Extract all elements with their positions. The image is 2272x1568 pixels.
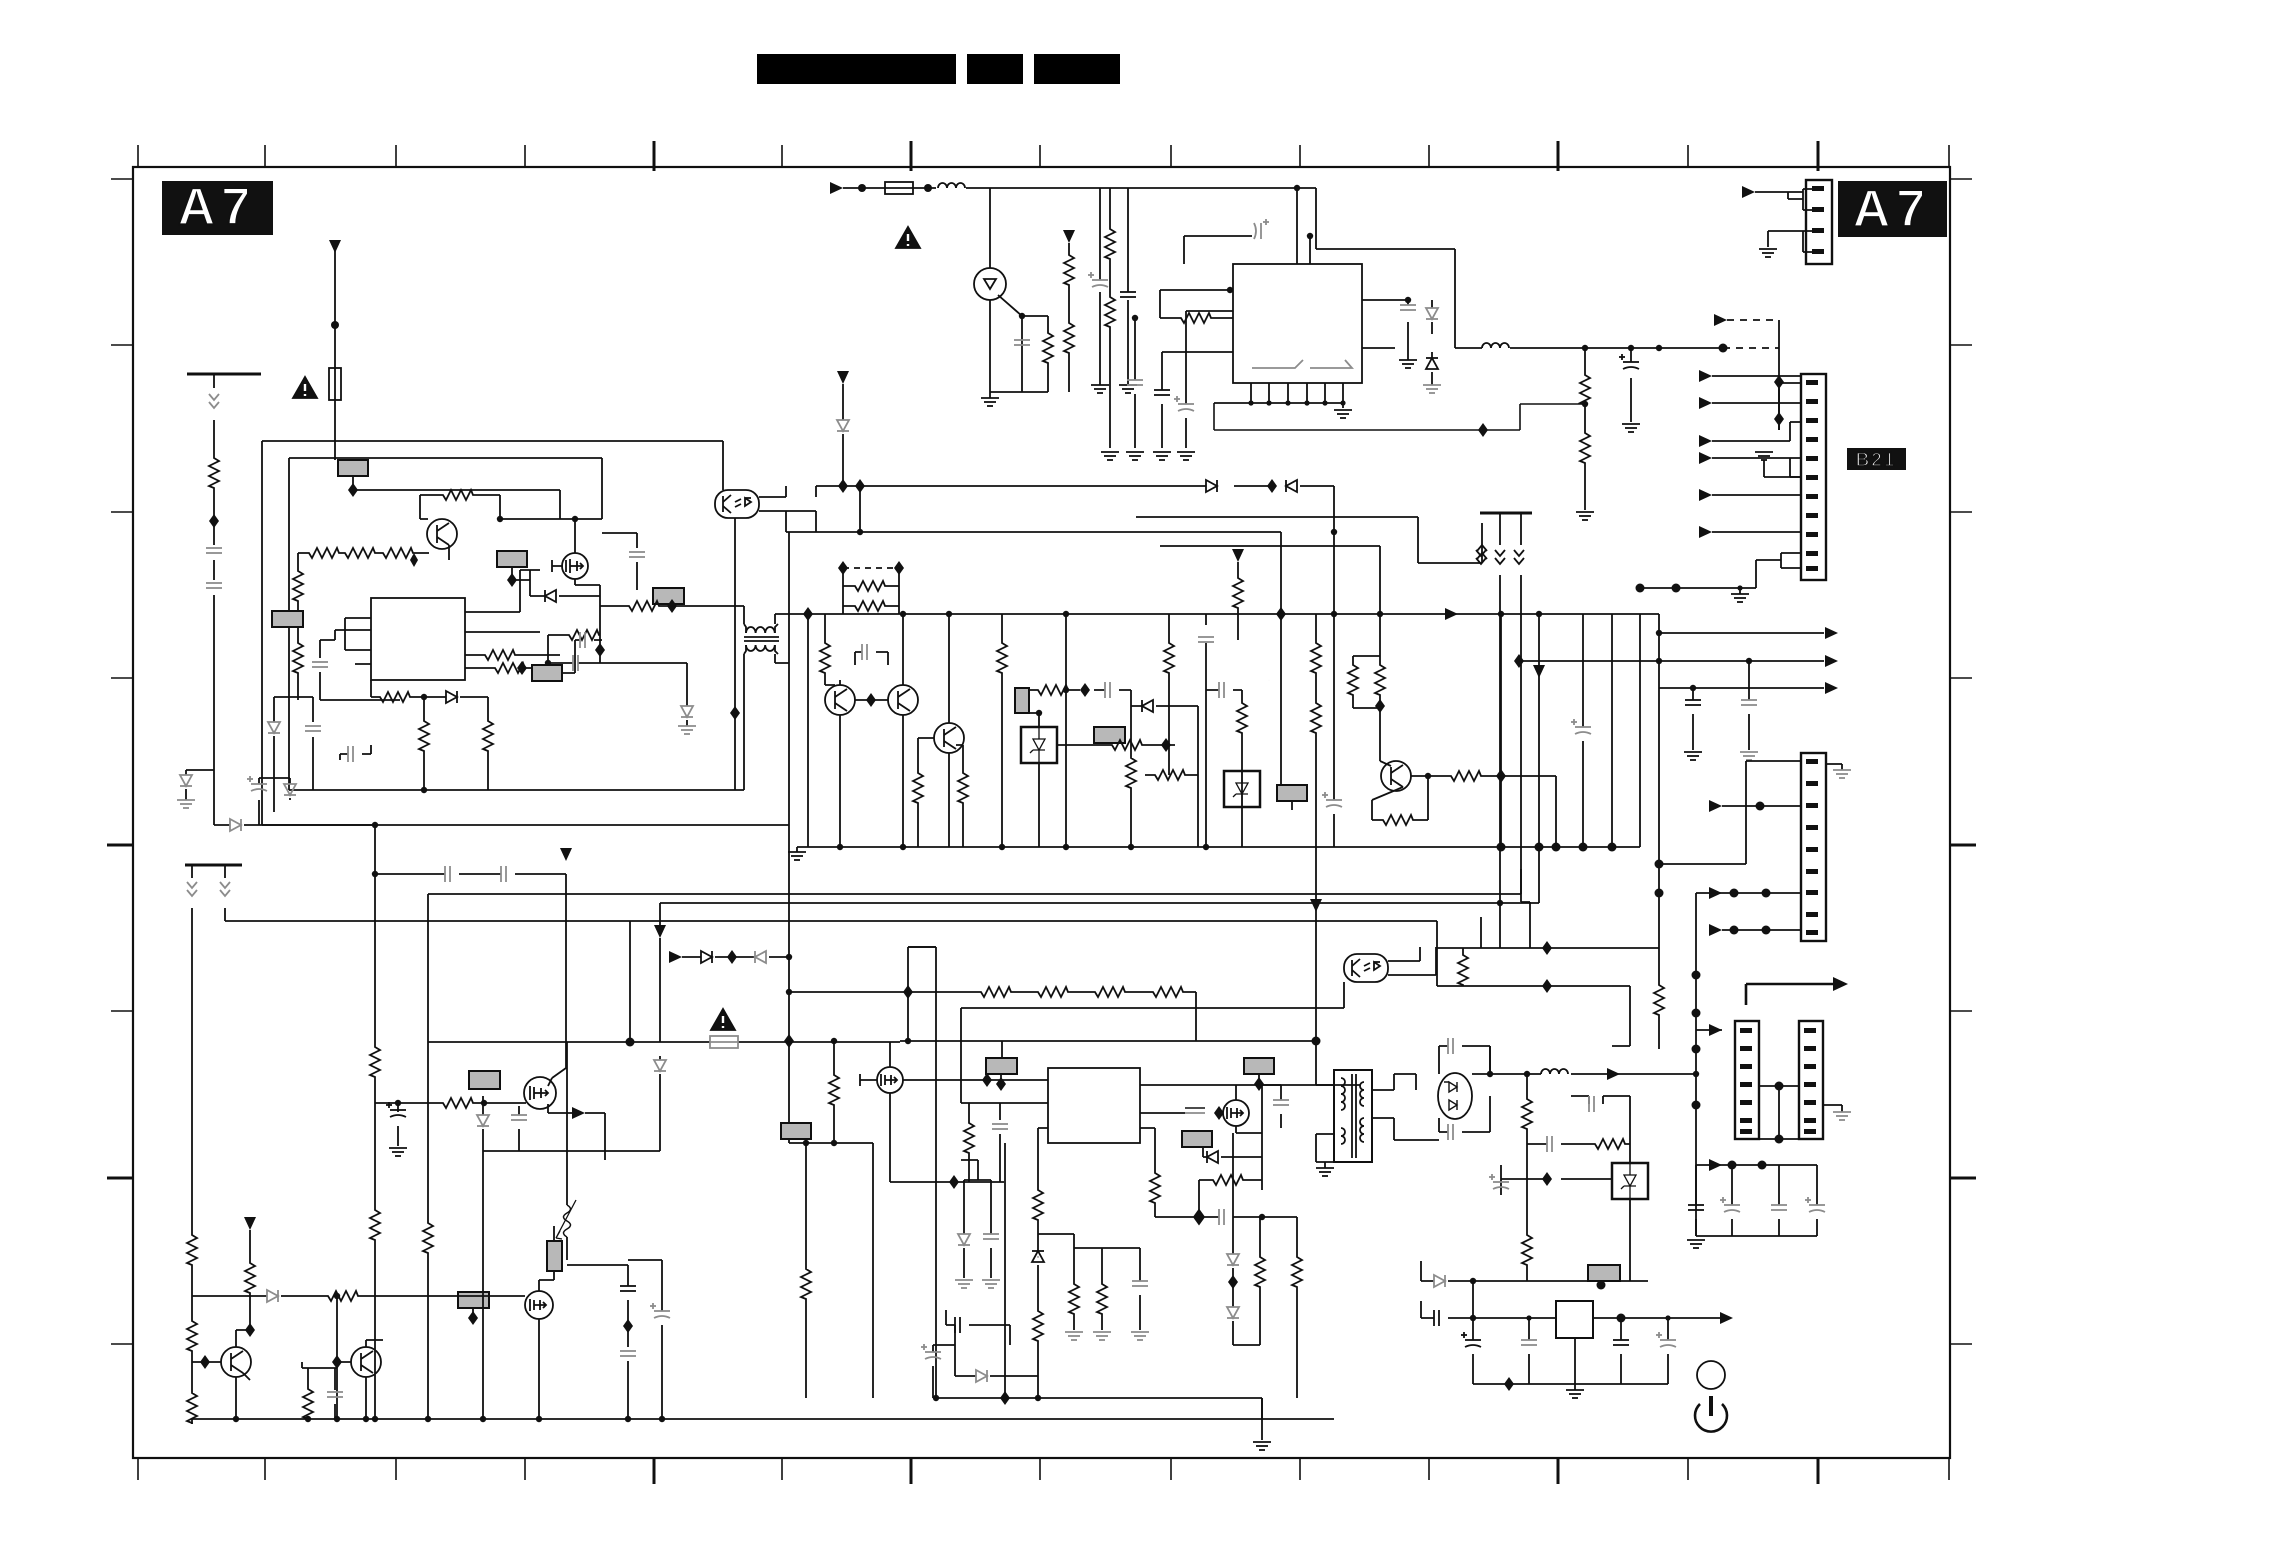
junction diamond 18: [1276, 607, 1286, 621]
resistor pair R33a R33b: [1353, 614, 1380, 723]
transistor Q8: [1381, 761, 1411, 791]
capacitor 30: [511, 1115, 527, 1120]
HV rail bar: [187, 373, 261, 376]
opto out wires: [759, 486, 816, 532]
grey label box3: [497, 551, 527, 567]
fuse 1: [710, 1036, 738, 1048]
wire 23: [448, 545, 450, 560]
resistor 25: [1109, 740, 1143, 750]
resistor 14: [492, 663, 526, 673]
resistor + cap under Q12: [302, 1362, 337, 1420]
diode 20: [1227, 1307, 1239, 1318]
wire 16: [1712, 422, 1801, 441]
resistor R10: [209, 455, 219, 489]
resistor 2: [1105, 294, 1115, 328]
zener box TH1: [1021, 727, 1057, 763]
junction node 5: [1294, 185, 1300, 191]
right pins to gate: [465, 570, 540, 655]
resistor 52: [1033, 1308, 1043, 1342]
caps around rectifier: [1439, 1046, 1490, 1074]
cap+ x1583: [1582, 614, 1584, 847]
ground 16: [1740, 752, 1758, 760]
wire 61: [249, 1230, 251, 1296]
wire 90: [1696, 1029, 1722, 1031]
pin 1: [1812, 186, 1824, 191]
junction node 13: [1636, 584, 1645, 593]
capacitor 7: [1400, 305, 1416, 310]
ground 19: [1253, 1442, 1271, 1450]
resistor 13: [566, 630, 600, 640]
resistor R6 leg: [1109, 188, 1111, 448]
capacitor 1: [1088, 272, 1108, 287]
ground 27: [1687, 1240, 1705, 1248]
wire 43: [1291, 801, 1293, 810]
wire 7: [990, 316, 1048, 392]
vertical x1169 resistor: [1168, 614, 1170, 775]
vertical x1612: [1611, 614, 1613, 847]
wire 47: [659, 938, 661, 1042]
junction node 49: [786, 954, 792, 960]
wire 6: [984, 279, 996, 289]
ground: [1334, 410, 1352, 418]
series cap y1325: [946, 1310, 1010, 1345]
arrow feed 3: [1699, 435, 1712, 447]
junction diamond 24: [623, 1319, 633, 1333]
vertical x1131: [1130, 690, 1132, 847]
transistor Q5: [825, 685, 855, 715]
signal arrow 7: [572, 1107, 585, 1119]
capacitor 34: [650, 1303, 670, 1318]
diode D7: [530, 570, 600, 596]
IC U2 regulator: [1233, 264, 1362, 383]
wire 74: [1236, 1085, 1262, 1133]
resistor 54: [1097, 1281, 1107, 1315]
junction node 19: [831, 1038, 837, 1044]
zener on x660: [659, 1056, 661, 1151]
junction node 33: [1608, 843, 1617, 852]
resistor 60: [1522, 1232, 1532, 1266]
diode D7b to ground: [686, 663, 688, 726]
pins: [1806, 380, 1818, 385]
ground 6: [1177, 452, 1195, 460]
bottom rails: [908, 947, 1262, 1440]
chevrons: [209, 394, 219, 408]
signal arrow 12: [1720, 1312, 1733, 1324]
junction node 27: [1425, 773, 1431, 779]
wire 78: [1360, 1082, 1364, 1106]
resistor R12 (collector): [420, 495, 500, 519]
resistor legs x183: [192, 1214, 251, 1424]
ground 15: [1684, 752, 1702, 760]
capacitor 47: [1771, 1205, 1787, 1210]
junction node 75: [1692, 1045, 1701, 1054]
resistor R3: [1043, 330, 1053, 364]
warning triangle: [896, 227, 920, 248]
cap+ x639: [628, 1260, 662, 1419]
cap C12: [320, 630, 335, 700]
junction node 41: [1128, 844, 1134, 850]
diamond junction: [209, 514, 219, 528]
wire 68: [881, 1074, 897, 1086]
vertical x1334 full: [1333, 532, 1335, 847]
arrow feed: [1709, 1024, 1722, 1036]
capacitor 13: [573, 655, 578, 671]
junction: [1019, 313, 1025, 319]
resistor R5: [1064, 320, 1074, 354]
diode 1: [1426, 308, 1438, 319]
junction diamond 10: [855, 479, 865, 493]
ruler ticks left: [107, 179, 133, 1344]
wire 35: [843, 605, 899, 607]
capacitor 19: [1105, 682, 1110, 698]
drive transformer T0: [746, 627, 775, 633]
wire 36: [825, 680, 840, 847]
series cap in bottom line: [340, 745, 371, 760]
diode 3: [180, 775, 192, 786]
node: [331, 321, 339, 329]
opto coupler U4: [1344, 954, 1388, 982]
capacitor 5: [1174, 396, 1194, 411]
capacitor 44: [921, 1344, 941, 1359]
diode D6: [230, 819, 241, 831]
bus 532: [786, 486, 1334, 785]
enclosure wire outer: [262, 441, 723, 825]
junction node 80: [1762, 889, 1771, 898]
signal arrow 2: [1533, 665, 1545, 678]
ground 1: [1091, 385, 1109, 393]
capacitor 33: [620, 1351, 636, 1356]
capacitor 20: [1198, 637, 1214, 642]
resistor 49: [1210, 1175, 1244, 1185]
junction node 6: [1248, 400, 1253, 405]
caps below regulator: [1473, 1318, 1668, 1384]
base link: [855, 699, 888, 701]
junction diamond 16: [1080, 683, 1090, 697]
capacitor 4: [1154, 390, 1170, 395]
resistor 11: [293, 640, 303, 674]
junction node 62: [625, 1416, 631, 1422]
junction diamond 30: [1254, 1077, 1264, 1091]
net label B21: [1847, 448, 1906, 471]
junction dots: [1312, 1037, 1321, 1046]
wire 76: [1341, 1078, 1345, 1110]
resistor + cap under pin2: [890, 1103, 1004, 1182]
capacitor 9: [187, 882, 197, 896]
rail bar 2: [185, 864, 242, 867]
capacitor 28: [445, 866, 450, 882]
resistor R29: [956, 745, 963, 847]
capacitor 22: [1571, 719, 1591, 734]
wire 9: [1068, 243, 1070, 392]
ground: [1759, 249, 1777, 257]
resistor R34 collector: [1448, 771, 1482, 781]
capacitor 18: [862, 644, 867, 660]
resistor 12: [626, 601, 660, 611]
junction node 32: [1579, 843, 1588, 852]
vertical x428: [427, 902, 429, 1419]
junction diamond 12: [838, 561, 848, 575]
junction node 38: [900, 844, 906, 850]
resistor R40: [370, 1044, 380, 1078]
rectifier D15 (dual): [1438, 1073, 1472, 1119]
cap right of IC: [1362, 300, 1408, 360]
wire 42: [1237, 562, 1239, 640]
connector pin 1: [1806, 759, 1818, 764]
cap y1217: [1155, 1210, 1262, 1224]
junction node 2: [1227, 287, 1233, 293]
resistor 4: [1580, 372, 1590, 406]
zener box 2: [1224, 771, 1260, 807]
wire 27: [500, 458, 602, 519]
junction node 72: [1655, 889, 1664, 898]
inductor L1: [938, 183, 965, 188]
capacitor 41: [983, 1234, 999, 1239]
junction diamonds on 486: [838, 479, 848, 493]
IC pins left: [903, 1080, 1048, 1187]
junction node 8: [1582, 345, 1588, 351]
wire to diode right: [214, 770, 375, 860]
junction node 63: [659, 1416, 665, 1422]
capacitor 24: [1495, 550, 1505, 564]
cap C18: [855, 652, 888, 665]
resistor 6: [440, 490, 474, 500]
junction node 9: [1628, 345, 1634, 351]
capacitor 51: [1489, 1174, 1509, 1189]
vertical x383: [374, 1078, 376, 1419]
junction node 17: [545, 660, 551, 666]
junction node 78: [1756, 802, 1765, 811]
ground 26: [1833, 1112, 1851, 1120]
resistor R19 drive row: [600, 605, 744, 607]
junction diamond 27: [332, 1355, 342, 1369]
capacitor 32: [620, 1286, 636, 1291]
cap across x1600: [1571, 1096, 1630, 1144]
capacitor 26: [1685, 700, 1701, 705]
signal arrow 1: [1445, 608, 1458, 620]
grey label: [1588, 1265, 1620, 1281]
junction node 74: [1692, 1009, 1701, 1018]
signal arrow: [1742, 186, 1755, 198]
diode D12: [1286, 480, 1297, 492]
capacitor 8: [1619, 354, 1639, 369]
resistor 42: [187, 1390, 197, 1424]
junction node 7: [1405, 297, 1411, 303]
wire 13: [1727, 319, 1779, 321]
output line 8V: [1362, 347, 1723, 349]
wire 69: [860, 1042, 890, 1182]
cap+ x933: [932, 1345, 934, 1398]
junction diamond 31: [982, 1073, 992, 1087]
ground 11: [1755, 452, 1773, 460]
resistor divider under 8V: [1584, 348, 1586, 510]
ruler ticks top: [138, 141, 1949, 171]
diode 4: [545, 590, 556, 602]
resistor 50: [1458, 952, 1468, 986]
resistor 22: [958, 770, 968, 804]
dashed standby arrow: [1714, 314, 1727, 326]
diode 7: [268, 722, 280, 733]
junction diamond 3: [348, 483, 358, 497]
diode 9: [1142, 700, 1153, 712]
junction diamond 39: [1542, 1172, 1552, 1186]
line to opto2: [961, 982, 1344, 1103]
diode 18: [976, 1370, 987, 1382]
output line y1074: [1472, 1046, 1695, 1074]
output arrows right: [1519, 614, 1824, 688]
elbow arrow thick: [1746, 984, 1838, 1005]
capacitor 35: [327, 1392, 343, 1397]
wire 24: [516, 654, 560, 656]
junction diamond 9: [784, 1034, 794, 1048]
wire 12: [1723, 347, 1779, 349]
wire 51: [548, 1078, 552, 1086]
junction node 42: [1203, 844, 1209, 850]
capacitor 53: [1461, 1332, 1481, 1347]
wire 87: [1722, 805, 1801, 807]
junction node 40: [1063, 844, 1069, 850]
bottom rail 1419: [192, 1418, 1334, 1420]
junction node 39: [999, 844, 1005, 850]
resistor 36: [423, 1220, 433, 1254]
resistor 53: [1069, 1281, 1079, 1315]
resistor 8: [342, 548, 376, 558]
cap C7b leg: [1186, 311, 1233, 448]
resistors under IC area: [1037, 1221, 1039, 1398]
junction node 37: [1331, 611, 1337, 617]
bus 614: [789, 532, 1659, 614]
capacitor 27: [1741, 700, 1757, 705]
wire 40: [1145, 706, 1198, 847]
diode row y706: [1131, 705, 1198, 707]
wire 80: [1352, 1074, 1356, 1158]
junction node 83: [1775, 1082, 1784, 1091]
connector J5 (right of pair): [1799, 1021, 1823, 1139]
resistor 46: [1092, 987, 1126, 997]
ground 9: [1576, 512, 1594, 520]
junction node 89: [1470, 1315, 1476, 1321]
resistor R35 emitter: [1380, 815, 1414, 825]
grey label mid: [1182, 1131, 1212, 1147]
resistor 9: [380, 548, 414, 558]
arrow feed 6: [1699, 489, 1712, 501]
junction node 10: [1656, 345, 1662, 351]
wire 91: [1696, 1165, 1817, 1205]
capacitor 49: [1547, 1136, 1552, 1152]
resistor 1: [1105, 226, 1115, 260]
wire 83: [1439, 1096, 1490, 1132]
junction node 71: [1655, 860, 1664, 869]
junction node 82: [1762, 926, 1771, 935]
transistor Q12: [351, 1347, 381, 1377]
resistor 37: [440, 1098, 474, 1108]
bottom network: resistor diode row: [371, 680, 488, 700]
arrow feed 4: [1699, 452, 1712, 464]
input arrow: [830, 182, 843, 194]
svg-text:A7: A7: [178, 178, 256, 236]
junction node 12: [1672, 584, 1681, 593]
junction diamond 13: [894, 561, 904, 575]
wire 31: [789, 1143, 873, 1398]
diode D3: [1431, 352, 1433, 385]
diode 6: [446, 691, 457, 703]
diode D9 + cap C15 branch: [274, 697, 313, 812]
resistor 29: [1237, 700, 1247, 734]
diode D11: [1206, 480, 1217, 492]
wire 49: [629, 921, 631, 1042]
ground 24: [1131, 1332, 1149, 1340]
wire 18: [1763, 460, 1765, 474]
grey label: [469, 1071, 500, 1089]
capacitor 31: [386, 1102, 406, 1117]
junction node 84: [1775, 1135, 1784, 1144]
connector J4 (left of pair): [1735, 1021, 1759, 1139]
diode/cap gnd pair: [964, 1180, 991, 1278]
junction node 23: [1331, 529, 1337, 535]
wire 864 to conn: [1659, 761, 1801, 864]
fuse line y1042: [428, 1041, 900, 1043]
resistor to zener row y745: [1057, 744, 1175, 746]
grey label box4: [653, 588, 684, 604]
cap C13: [602, 533, 637, 590]
ground 20: [955, 1280, 973, 1288]
wire 34: [843, 585, 899, 587]
IC U5: [1048, 1068, 1140, 1143]
chevron up: [1477, 545, 1487, 559]
wire: [1755, 192, 1803, 199]
capacitor 40: [1448, 1124, 1453, 1140]
junction node 67: [1487, 1071, 1493, 1077]
ruler ticks right: [1950, 179, 1976, 1344]
junction node 58: [372, 1416, 378, 1422]
signal arrow 8: [1310, 899, 1322, 912]
wire 88: [1696, 892, 1801, 894]
capacitor 45: [1688, 1205, 1704, 1210]
resistor 58: [1592, 1139, 1626, 1149]
cap across: [1262, 1085, 1281, 1190]
capacitor 21: [1219, 682, 1224, 698]
junction diamond 33: [1214, 1106, 1224, 1120]
wire 28: [744, 637, 779, 641]
arrow down x660: [654, 925, 666, 938]
junction diamond 36: [1228, 1275, 1238, 1289]
wire 73: [1227, 1107, 1243, 1119]
pin 4: [1812, 249, 1824, 254]
capacitor 16: [247, 776, 267, 791]
junction node 50: [626, 1038, 635, 1047]
grey label box5: [532, 665, 562, 681]
caps bank bottom right: [1709, 1159, 1722, 1171]
wire 26: [552, 519, 600, 663]
ground 12: [177, 800, 195, 808]
junction node 34: [1552, 843, 1561, 852]
wire 14: [1778, 320, 1780, 430]
line y1179: [1501, 1178, 1612, 1180]
junction node 76: [1692, 1101, 1701, 1110]
electrolytic C20: [397, 1103, 399, 1146]
resistor R22: [423, 697, 425, 790]
junction node 55: [305, 1416, 311, 1422]
junction: [372, 822, 378, 828]
resistor x1527: [1526, 1074, 1528, 1281]
svg-text:B21: B21: [1856, 450, 1897, 471]
junction node 24: [1036, 710, 1042, 716]
arrow feed 1b: [1699, 370, 1712, 382]
junction diamond 15: [866, 693, 876, 707]
wire 54: [483, 1150, 660, 1152]
junction node 60: [480, 1416, 486, 1422]
border frame: [133, 167, 1950, 1458]
redacted title bar 3: [1034, 54, 1120, 84]
